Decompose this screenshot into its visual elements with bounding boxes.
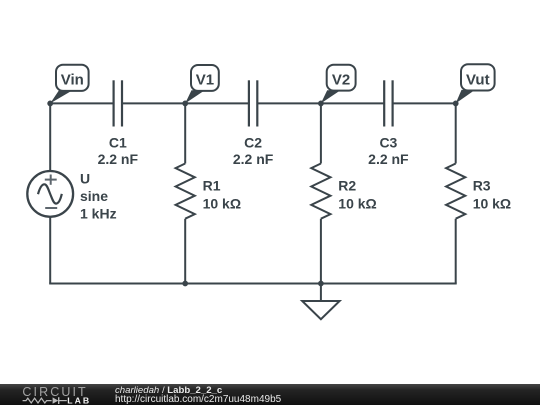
junction dot bottom ground: [318, 281, 324, 287]
junction dot V2: [318, 101, 324, 107]
wire R2 bottom stub: [320, 219, 322, 284]
wire bottom rail: [49, 283, 457, 285]
svg-text:Vut: Vut: [466, 71, 490, 88]
capacitor C1: [98, 80, 139, 167]
CircuitLab logo wordmark LAB: [67, 395, 91, 405]
svg-text:10 kΩ: 10 kΩ: [203, 195, 241, 211]
wire top rail segment 2 (C1 to C2): [122, 102, 249, 104]
footer attribution line: [115, 385, 282, 405]
svg-text:LAB: LAB: [67, 395, 91, 405]
svg-text:Vin: Vin: [61, 72, 84, 89]
svg-text:U: U: [80, 171, 90, 187]
capacitor C2: [233, 80, 274, 167]
svg-text:http://circuitlab.com/c2m7uu48: http://circuitlab.com/c2m7uu48m49b5: [115, 394, 282, 405]
wire R2 top stub: [320, 103, 322, 163]
svg-text:2.2 nF: 2.2 nF: [368, 151, 409, 167]
svg-text:C2: C2: [244, 135, 262, 151]
svg-text:V1: V1: [196, 72, 214, 89]
wire top rail segment 4 (C3 to Vut): [393, 102, 456, 104]
wire left vertical lower (U bottom to bottom rail): [49, 217, 51, 284]
node V1 flag: [185, 65, 219, 103]
wire left vertical upper (Vin to U top): [49, 103, 51, 171]
capacitor C3: [368, 80, 409, 167]
footer bar: [0, 384, 540, 405]
svg-text:10 kΩ: 10 kΩ: [473, 195, 511, 211]
CircuitLab logo resistor-diode line: [23, 397, 67, 404]
svg-text:1 kHz: 1 kHz: [80, 206, 117, 222]
junction dot Vut: [453, 101, 459, 107]
resistor R3: [446, 164, 511, 219]
svg-text:R2: R2: [338, 178, 356, 194]
svg-text:R1: R1: [203, 178, 221, 194]
resistor R1: [176, 164, 241, 219]
node V2 flag: [321, 65, 356, 104]
junction dot Vin: [47, 101, 53, 107]
svg-text:2.2 nF: 2.2 nF: [98, 151, 139, 167]
voltage source U1 (sine): [27, 171, 116, 222]
node Vut flag: [456, 64, 495, 103]
ground: [302, 284, 339, 320]
wire R1 top stub: [184, 103, 186, 163]
svg-text:C1: C1: [109, 135, 127, 151]
svg-text:C3: C3: [379, 135, 397, 151]
svg-text:R3: R3: [473, 178, 491, 194]
resistor R2: [311, 164, 376, 219]
svg-text:sine: sine: [80, 188, 108, 204]
CircuitLab logo wordmark CIRCUIT: [22, 385, 87, 399]
svg-text:10 kΩ: 10 kΩ: [338, 195, 376, 211]
svg-text:2.2 nF: 2.2 nF: [233, 151, 274, 167]
wire R3 bottom stub: [455, 219, 457, 284]
wire R3 top stub: [455, 103, 457, 163]
wire top rail segment 1 (Vin to C1): [50, 102, 113, 104]
node Vin flag: [50, 65, 88, 104]
junction dot bottom R1: [182, 281, 188, 287]
svg-text:V2: V2: [332, 72, 350, 89]
wire R1 bottom stub: [184, 219, 186, 284]
wire top rail segment 3 (C2 to C3): [257, 102, 384, 104]
junction dot V1: [182, 101, 188, 107]
